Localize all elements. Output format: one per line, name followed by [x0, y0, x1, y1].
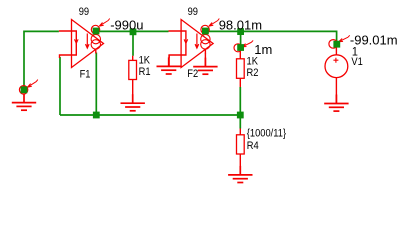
- node square: bus junction at R2/R4: [237, 112, 244, 119]
- svg-text:1K: 1K: [247, 56, 259, 68]
- node square: F2 output: [202, 28, 209, 35]
- node square: bus junction at F1 output-: [93, 112, 100, 119]
- probe circle at V1 top node: [329, 40, 338, 49]
- resistor R4: [237, 129, 245, 175]
- node square: left probed node: [21, 86, 28, 93]
- svg-text:F1: F1: [80, 69, 91, 81]
- wire: bottom bus: [60, 114, 241, 116]
- probe arrow at left ground node: [27, 80, 37, 88]
- probe circle at left ground node: [19, 86, 27, 94]
- svg-text:1m: 1m: [254, 42, 272, 57]
- svg-text:F2: F2: [187, 69, 198, 81]
- ground (below R4): [228, 166, 252, 183]
- svg-text:V1: V1: [351, 56, 363, 68]
- node square: F1 output: [93, 28, 100, 35]
- svg-text:99: 99: [79, 6, 90, 18]
- svg-text:-990u: -990u: [110, 17, 143, 32]
- svg-text:98.01m: 98.01m: [219, 17, 262, 32]
- svg-text:-99.01m: -99.01m: [350, 33, 398, 48]
- node square: V1 top node: [333, 41, 340, 48]
- wire: R2 bottom to bus junction: [239, 87, 241, 115]
- wire: F1 output to R1 junction: [96, 30, 133, 32]
- voltage source V1: [325, 47, 348, 103]
- ground (F2 output-): [204, 53, 206, 66]
- wire: R1 junction to F2 input+: [133, 30, 169, 32]
- probe arrow at V1 top node: [339, 34, 350, 43]
- resistor R1: [129, 56, 137, 103]
- op-amp F2 (CCCS): [169, 20, 214, 68]
- wire: R2 junction to V1 corner and down to V1 node: [241, 31, 337, 44]
- wire: top-left horizontal from corner to F1 input+: [24, 30, 59, 32]
- ground (F2 input-): [168, 55, 170, 66]
- svg-text:99: 99: [188, 6, 199, 18]
- resistor R2: [237, 50, 245, 87]
- svg-text:R4: R4: [247, 141, 259, 153]
- node square: R2 probed node: [237, 44, 244, 51]
- ground (below R1): [121, 94, 145, 111]
- svg-text:1K: 1K: [139, 55, 151, 67]
- wire: left vertical down to probed node: [23, 31, 25, 91]
- wire: R1 junction down to R1: [132, 31, 134, 56]
- svg-text:{1000/11}: {1000/11}: [247, 128, 287, 140]
- node square: junction at R2 top: [237, 28, 244, 35]
- probe arrow at F2 output node: [209, 19, 219, 27]
- wire: F2 output to R2 junction: [205, 30, 240, 32]
- ground (below V1): [324, 95, 348, 112]
- probe arrow at F1 output node: [99, 19, 109, 27]
- svg-text:R1: R1: [139, 66, 151, 78]
- svg-text:R2: R2: [247, 67, 259, 79]
- wire: F1 output- down to bottom bus: [95, 53, 97, 116]
- node square: junction at R1: [130, 28, 137, 35]
- ground (left probed node): [12, 94, 36, 111]
- probe arrow at R2 top node: [242, 39, 253, 48]
- wire: F1 input- down to bottom bus: [59, 57, 61, 115]
- probe circle at F1 output node: [91, 25, 99, 33]
- probe circle at R2 top node: [234, 44, 242, 52]
- op-amp F1 (CCCS): [59, 20, 104, 68]
- wire: R2 junction down to probed node: [240, 31, 242, 48]
- wire: bus junction down to R4: [239, 115, 241, 129]
- probe circle at F2 output node: [201, 25, 209, 33]
